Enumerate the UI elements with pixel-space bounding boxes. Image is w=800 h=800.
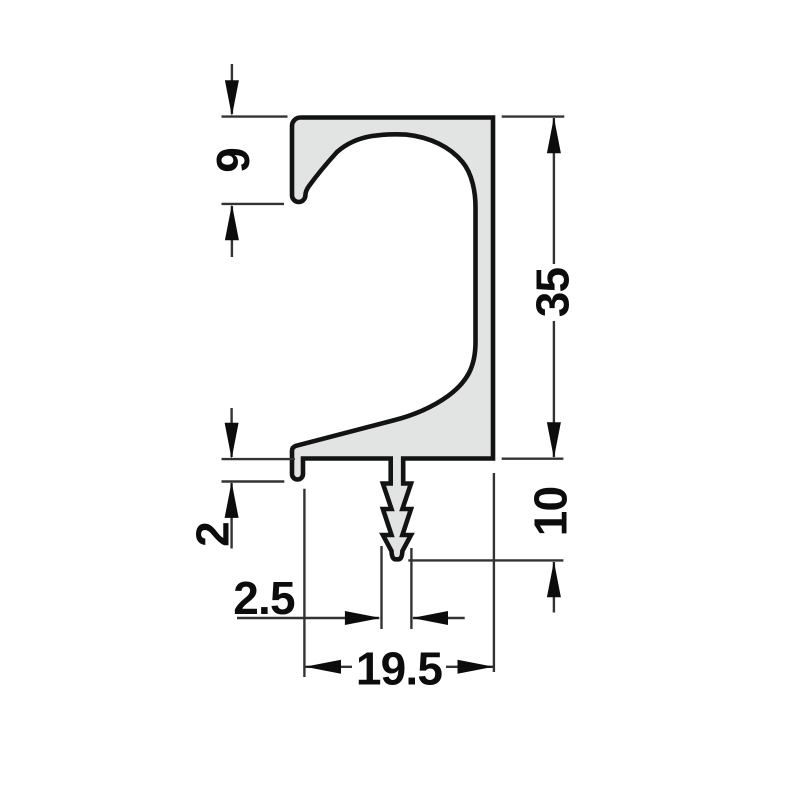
dim 35: bottom extension line [502,458,564,460]
dim 35: lower shaft [553,321,555,457]
dim 2.5: arrow pointing left at x=411.5 [412,611,448,625]
dim 2.5: right extension line [410,548,412,629]
dim 10: lower arrow shaft [553,562,555,613]
dim 2: bottom extension line [222,480,285,482]
dim 2.5: left extension line [380,546,382,629]
dim 9: bottom extension line [222,203,285,205]
svg-text:10: 10 [525,487,577,537]
svg-text:35: 35 [527,268,579,318]
dim 2: arrow pointing down at y=459 [225,423,239,459]
dim 2.5: arrow pointing right at x=381 [345,611,381,625]
thin dimension / extension lines [222,64,565,677]
dim 9: top extension line [222,115,288,117]
dim 19.5: arrow pointing left at x=305 [305,660,341,674]
dim 9: arrow pointing up at y=204 [225,204,239,240]
dim 2: upper arrow shaft [230,408,232,457]
dim 10: bottom extension line (tang tip level) [408,559,563,561]
arrowheads [225,80,561,674]
profile cross-section (C-shaped handle extrusion with barbed tang) [292,118,493,560]
dim 2: arrow pointing up at y=481.5 [225,482,239,518]
dim 10: arrow pointing up at y=561 [547,561,561,597]
svg-text:9: 9 [207,148,259,173]
dim 35: arrow pointing up at y=117 [547,117,561,153]
dim 35: upper shaft [553,118,555,264]
dim 19.5: left extension line [303,489,305,677]
svg-text:2.5: 2.5 [233,572,295,624]
dim 19.5: right shaft [446,666,493,668]
dim 35: top extension line [502,115,565,117]
dim 35: arrow pointing down at y=458 [547,422,561,458]
dim 19.5: arrow pointing right at x=493.5 [458,660,494,674]
dim 9: upper arrow shaft [231,64,233,114]
dim 19.5: left shaft [305,666,352,668]
dim 2: lower arrow shaft [230,483,232,549]
svg-text:19.5: 19.5 [356,642,443,694]
dim 9: arrow pointing down at y=116 [225,80,239,116]
dim 2.5: left arrow shaft [237,617,379,619]
dim 9: lower arrow shaft [231,206,233,257]
svg-text:2: 2 [187,522,239,547]
dim 19.5: right extension line [493,473,495,672]
dim 2: top extension line [222,458,295,460]
dim 2.5: right arrow shaft [413,617,465,619]
